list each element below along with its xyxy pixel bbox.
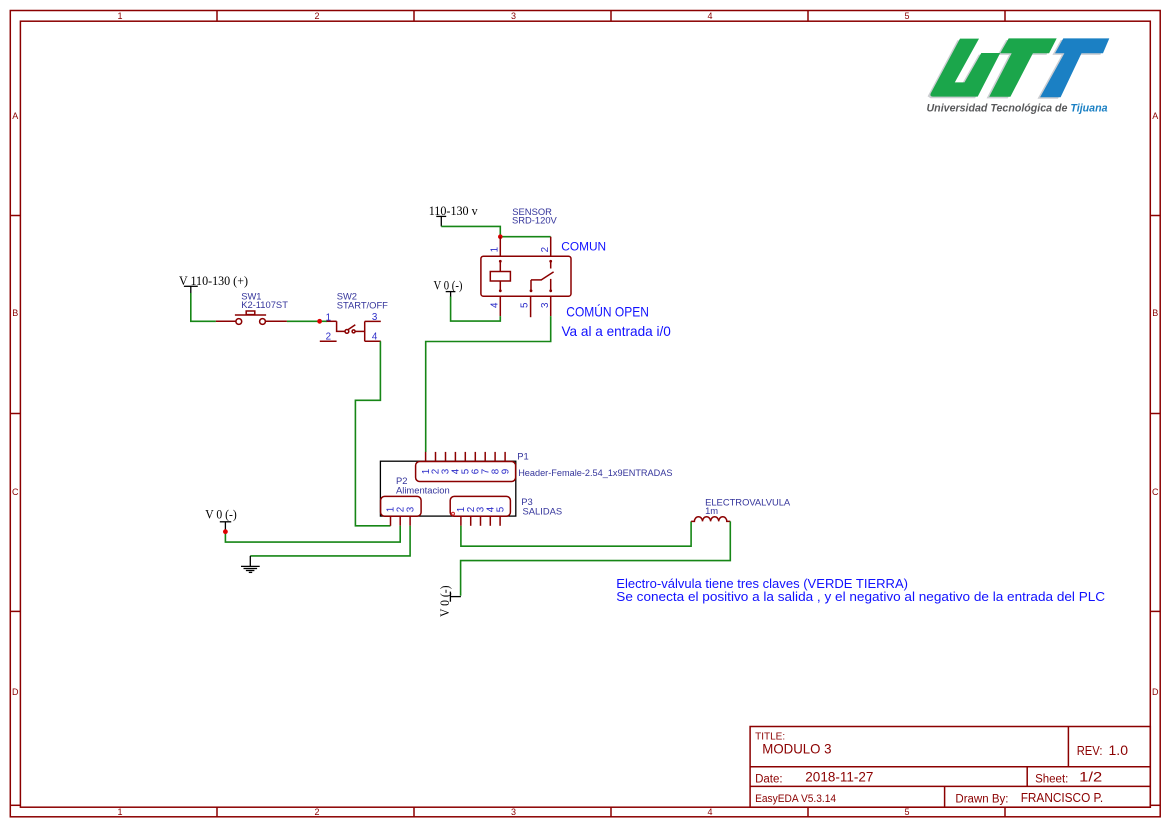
svg-text:K2-1107ST: K2-1107ST xyxy=(241,299,288,310)
svg-text:2: 2 xyxy=(326,331,331,342)
svg-text:A: A xyxy=(1152,111,1158,121)
svg-text:EasyEDA V5.3.14: EasyEDA V5.3.14 xyxy=(755,793,836,805)
switch SW2 START/OFF xyxy=(320,290,389,342)
svg-text:B: B xyxy=(12,308,18,318)
svg-text:3: 3 xyxy=(511,807,516,817)
svg-text:2: 2 xyxy=(314,11,319,21)
svg-text:Se conecta el positivo a la sa: Se conecta el positivo a la salida , y e… xyxy=(616,590,1105,604)
svg-text:4: 4 xyxy=(707,807,712,817)
svg-text:2018-11-27: 2018-11-27 xyxy=(805,770,873,785)
svg-text:1m: 1m xyxy=(705,505,718,516)
wire xyxy=(461,521,731,595)
svg-text:B: B xyxy=(1152,308,1158,318)
svg-text:COMÚN OPEN: COMÚN OPEN xyxy=(566,305,649,320)
svg-text:3: 3 xyxy=(405,506,416,512)
junction xyxy=(498,234,503,239)
svg-text:2: 2 xyxy=(314,807,319,817)
wire xyxy=(461,521,691,546)
junction xyxy=(223,529,228,534)
connector P2 Alimentacion xyxy=(381,475,450,526)
net flag 110-130 v xyxy=(429,204,479,227)
svg-text:5: 5 xyxy=(520,302,531,308)
svg-text:V 0 (-): V 0 (-) xyxy=(205,508,237,522)
svg-text:SALIDAS: SALIDAS xyxy=(523,506,563,517)
net flag V 0 (-) at relay xyxy=(434,278,463,297)
connector P3 SALIDAS xyxy=(450,496,562,526)
net flag V 0 (-) left xyxy=(205,508,237,530)
svg-text:3: 3 xyxy=(511,11,516,21)
PLC block xyxy=(380,461,515,516)
wire xyxy=(441,226,500,236)
svg-text:D: D xyxy=(1152,687,1159,697)
svg-text:110-130 v: 110-130 v xyxy=(429,204,479,218)
svg-text:C: C xyxy=(12,487,19,497)
wire xyxy=(287,320,320,322)
wire xyxy=(250,526,410,556)
wire xyxy=(191,293,216,321)
svg-text:FRANCISCO P.: FRANCISCO P. xyxy=(1021,790,1103,805)
svg-text:1/2: 1/2 xyxy=(1079,770,1102,785)
svg-text:Sheet:: Sheet: xyxy=(1035,773,1068,785)
svg-text:COMUN: COMUN xyxy=(561,239,606,253)
svg-text:REV:: REV: xyxy=(1077,743,1103,758)
svg-text:Va al a entrada i/0: Va al a entrada i/0 xyxy=(562,324,672,339)
svg-text:5: 5 xyxy=(495,506,506,512)
wire xyxy=(355,341,390,526)
svg-text:C: C xyxy=(1152,487,1159,497)
svg-text:V 0 (-): V 0 (-) xyxy=(434,278,463,292)
wire xyxy=(225,526,400,542)
svg-text:MODULO 3: MODULO 3 xyxy=(762,741,831,757)
svg-text:A: A xyxy=(12,111,18,121)
UTT logo xyxy=(927,38,1110,114)
svg-text:5: 5 xyxy=(904,11,909,21)
svg-text:3: 3 xyxy=(540,302,551,308)
pushbutton SW1 K2-1107ST xyxy=(216,290,288,324)
svg-text:Date:: Date: xyxy=(755,773,783,785)
inductor ELECTROVALVULA 1m xyxy=(691,497,791,522)
svg-text:1: 1 xyxy=(117,807,122,817)
svg-text:5: 5 xyxy=(904,807,909,817)
svg-text:START/OFF: START/OFF xyxy=(337,299,388,310)
svg-text:Drawn By:: Drawn By: xyxy=(955,794,1008,806)
relay SENSOR SRD-120V xyxy=(481,206,571,317)
svg-text:1: 1 xyxy=(117,11,122,21)
svg-text:Universidad Tecnológica de Tij: Universidad Tecnológica de Tijuana xyxy=(927,103,1108,115)
ground xyxy=(241,556,260,573)
svg-text:4: 4 xyxy=(489,302,500,308)
svg-text:1.0: 1.0 xyxy=(1109,743,1129,758)
svg-text:Alimentacion: Alimentacion xyxy=(396,484,450,495)
svg-text:3: 3 xyxy=(372,312,378,323)
junction xyxy=(317,319,322,324)
svg-text:1: 1 xyxy=(489,247,500,252)
wire xyxy=(500,236,550,238)
connector P1 Header-Female ENTRADAS xyxy=(416,451,673,482)
svg-text:Header-Female-2.54_1x9ENTRADAS: Header-Female-2.54_1x9ENTRADAS xyxy=(518,467,672,478)
svg-text:9: 9 xyxy=(500,469,511,474)
net flag V 110-130 (+) xyxy=(179,274,248,294)
svg-text:2: 2 xyxy=(540,247,551,252)
svg-text:D: D xyxy=(12,687,19,697)
wire xyxy=(426,316,551,452)
net flag V 0 (-) bottom rotated xyxy=(438,586,461,618)
svg-text:1: 1 xyxy=(326,312,331,323)
title block xyxy=(750,727,1150,808)
svg-text:4: 4 xyxy=(707,11,712,21)
svg-text:SRD-120V: SRD-120V xyxy=(512,215,558,226)
svg-text:4: 4 xyxy=(372,332,378,343)
wire xyxy=(451,297,501,322)
svg-text:P1: P1 xyxy=(517,451,528,462)
